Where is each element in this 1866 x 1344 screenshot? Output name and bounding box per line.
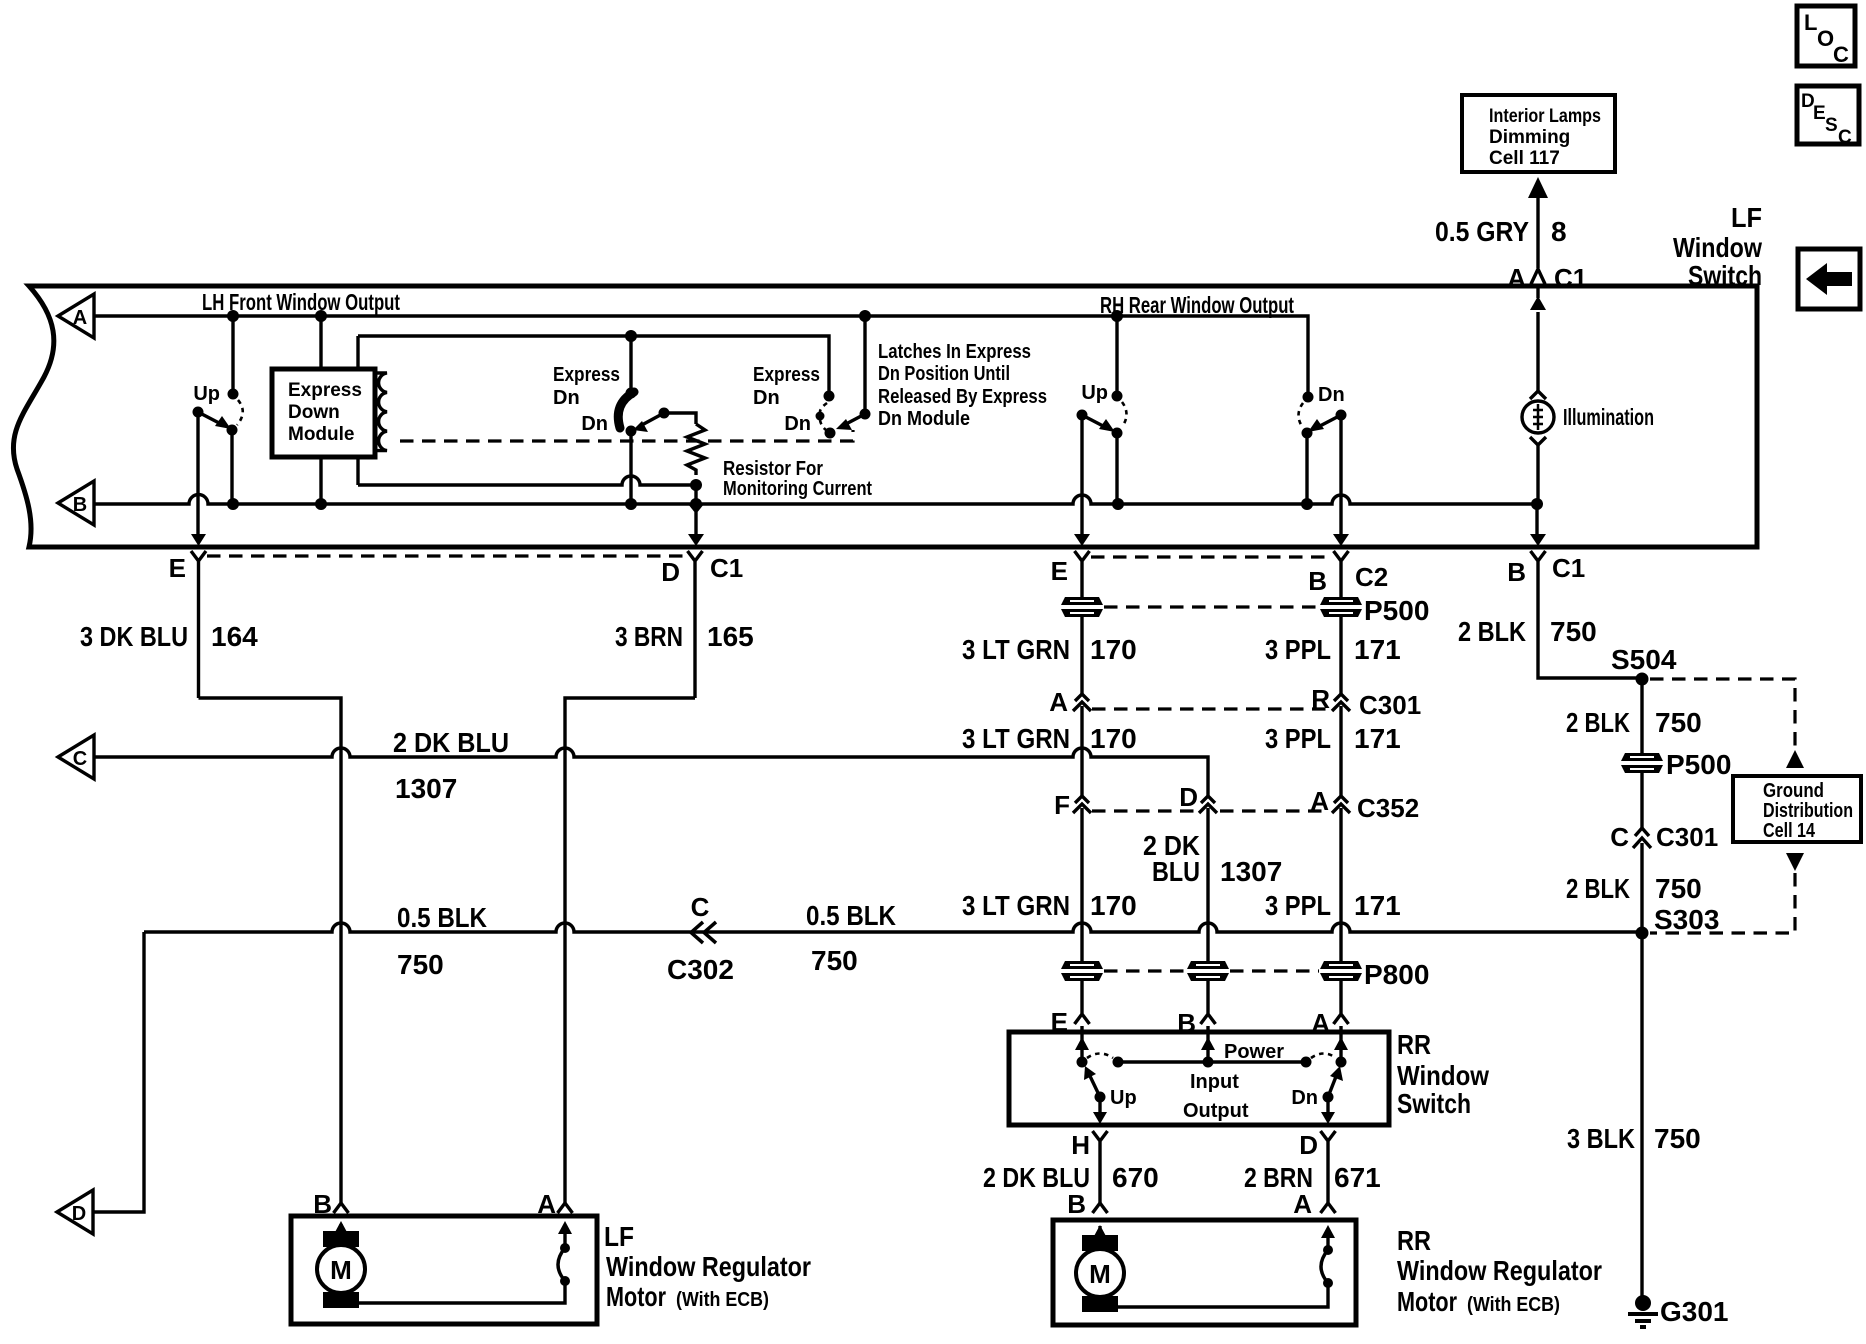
wire inner loop left bottom [356,457,359,485]
svg-text:1307: 1307 [395,773,457,804]
svg-text:Dn: Dn [581,413,608,435]
svg-text:3 PPL: 3 PPL [1265,723,1331,754]
LF motor ECB breaker [558,1221,572,1286]
pin D (RR switch) [1299,1130,1335,1203]
svg-text:E: E [1051,556,1068,586]
svg-text:Dn: Dn [553,387,580,409]
wire seg E column to P800 [1080,930,1083,961]
svg-text:C301: C301 [1656,822,1718,852]
svg-text:A: A [1507,263,1526,293]
svg-text:A: A [1293,1189,1312,1219]
svg-text:C: C [691,892,710,922]
svg-text:Distribution: Distribution [1763,800,1853,822]
RR switch power leg [1206,1032,1209,1062]
connector P800 (A line) [1320,961,1362,981]
connector C352 dashed [1092,809,1327,812]
svg-text:164: 164 [211,621,258,652]
wire inner loop left top [356,336,359,369]
wire 2 BLK 750 to P500 [1640,679,1643,753]
svg-text:D: D [72,1203,86,1225]
connector triangle A [58,294,94,338]
connector triangle C [58,735,94,779]
back-arrow box [1798,249,1860,309]
wire seg E column to C301 [1080,617,1083,694]
svg-text:Released By Express: Released By Express [878,386,1047,408]
svg-text:C1: C1 [1554,263,1587,293]
svg-text:C301: C301 [1359,690,1421,720]
svg-text:Module: Module [288,424,355,445]
svg-text:671: 671 [1334,1162,1381,1193]
pin A C352 [1310,786,1419,930]
svg-text:M: M [330,1255,352,1285]
svg-text:Illumination: Illumination [1563,404,1654,430]
RR window switch box U3 [1009,1032,1389,1125]
svg-text:C2: C2 [1355,562,1388,592]
svg-text:170: 170 [1090,723,1137,754]
wire inner loop bottom rail (hop over S2 pivot wire) [358,476,696,485]
svg-text:Window Regulator: Window Regulator [1397,1255,1602,1286]
wire 0.5 BLK 750 (horizontal with hops) [144,923,1642,932]
svg-text:Dn: Dn [753,387,780,409]
svg-text:D: D [1299,1130,1318,1160]
ground G301 [1628,1295,1729,1327]
svg-text:Input: Input [1190,1071,1239,1093]
dashed ground distribution link (S303 side) [1650,873,1795,933]
svg-text:750: 750 [1655,873,1702,904]
RR switch dn arm [1328,1074,1337,1097]
connector C1 dashed (left) [207,554,686,557]
svg-text:Switch: Switch [1397,1088,1471,1119]
node S504 [1636,673,1649,686]
svg-text:8: 8 [1551,216,1567,247]
svg-text:3 LT GRN: 3 LT GRN [962,723,1070,754]
RR switch dn output leg [1326,1097,1329,1119]
pin C C301 (ground run) [1610,822,1718,930]
svg-text:2 DK BLU: 2 DK BLU [393,727,509,758]
RR motor B entry arrow [1098,1226,1101,1235]
pin A (RR motor) [1293,1189,1335,1219]
svg-text:B: B [1308,566,1327,596]
RR switch up output leg [1098,1097,1101,1119]
wire RH up pivot to pin E C2 [1080,415,1083,535]
svg-text:170: 170 [1090,634,1137,665]
svg-text:A: A [1310,786,1329,816]
svg-text:B: B [73,494,87,516]
wire express module top [319,316,322,369]
pin F C352 [1054,790,1091,930]
svg-text:Interior Lamps: Interior Lamps [1489,106,1601,127]
dashed ground distribution link (S504 side) [1650,679,1795,748]
svg-text:Dn Module: Dn Module [878,408,970,430]
svg-text:3 BRN: 3 BRN [615,621,683,652]
wire illumination to wire B [1536,445,1539,504]
RR switch input rail [1118,1060,1306,1063]
svg-text:O: O [1817,26,1834,51]
svg-text:Resistor For: Resistor For [723,458,823,480]
pin B (RR motor) [1067,1189,1107,1219]
LF motor B entry arrow [339,1224,342,1231]
motor M1 symbol [317,1231,365,1308]
wire LH up pivot to pin E [196,412,199,535]
svg-text:165: 165 [707,621,754,652]
svg-text:Motor: Motor [606,1281,666,1312]
svg-text:2 BLK: 2 BLK [1566,873,1630,904]
svg-text:S504: S504 [1611,644,1677,675]
svg-text:171: 171 [1354,890,1401,921]
svg-text:Switch: Switch [1688,260,1762,291]
pin A C1 (top, LF switch) [1507,263,1587,293]
svg-text:750: 750 [1655,707,1702,738]
svg-text:Up: Up [1110,1087,1137,1109]
svg-text:0.5 GRY: 0.5 GRY [1435,216,1529,247]
LF Window Switch box U1 (torn left edge) [13,286,1757,547]
lamp DS1 illumination [1522,391,1654,445]
svg-text:C: C [1610,822,1629,852]
svg-text:A: A [73,307,87,329]
node wire A / express module [315,310,327,322]
wire LH up switch top [231,316,234,389]
svg-text:S: S [1825,115,1838,136]
svg-text:3 LT GRN: 3 LT GRN [962,634,1070,665]
connector triangle B [58,481,94,525]
svg-text:3 PPL: 3 PPL [1265,634,1331,665]
wire 165 run to LF motor A [565,698,695,1203]
svg-text:H: H [1071,1130,1090,1160]
wire B (output rail with hops) [94,495,1537,505]
P500 dashed link [1104,605,1318,608]
wire RH dn pivot to pin B C2 [1339,415,1342,535]
arrow out of ground cell [1786,853,1804,871]
wire 0.5 GRY 8 to dimming cell [1536,196,1539,268]
wire 164 run to LF motor B [199,698,342,1203]
wire illumination branch to pin B C1 [1535,504,1538,536]
svg-text:BLU: BLU [1152,856,1200,887]
svg-text:LF: LF [604,1221,634,1252]
switch S5 Dn (RH) [1299,384,1347,439]
svg-text:Dn: Dn [1291,1087,1318,1109]
svg-text:B: B [1067,1189,1086,1219]
DESC tab box [1797,86,1859,148]
pin B C1 (right) [1507,551,1642,678]
svg-text:0.5 BLK: 0.5 BLK [806,900,896,931]
connector P800 (E line) [1061,961,1103,981]
svg-text:750: 750 [1550,616,1597,647]
svg-text:3 DK BLU: 3 DK BLU [80,621,188,652]
pin E (RR switch) [1051,981,1090,1037]
node wire A / LH up switch [227,310,239,322]
svg-text:R: R [1311,684,1330,714]
svg-text:Monitoring Current: Monitoring Current [723,478,872,500]
wire 3 BLK 750 to ground [1640,933,1643,1300]
svg-text:P500: P500 [1364,595,1429,626]
pin D C1 [661,551,743,698]
svg-text:E: E [1813,103,1826,124]
pin R C301 [1311,684,1421,796]
svg-text:3 LT GRN: 3 LT GRN [962,890,1070,921]
svg-text:Dimming: Dimming [1489,127,1570,148]
svg-text:Ground: Ground [1763,780,1824,802]
svg-text:Motor: Motor [1397,1286,1457,1317]
svg-text:C: C [73,748,87,770]
svg-text:171: 171 [1354,723,1401,754]
pin B (LF motor) [313,1189,348,1219]
wire LH up lower contact to wire B [230,430,233,504]
svg-text:3 PPL: 3 PPL [1265,890,1331,921]
svg-text:171: 171 [1354,634,1401,665]
svg-text:750: 750 [1654,1123,1701,1154]
svg-text:RR: RR [1397,1225,1431,1256]
RR motor bottom wire [1100,1283,1328,1307]
express module coil (right edge) [376,373,387,451]
svg-text:2 BLK: 2 BLK [1458,616,1526,647]
svg-text:0.5 BLK: 0.5 BLK [397,902,487,933]
connector C302 marker [667,892,734,985]
svg-text:C: C [1838,127,1852,148]
RR switch A leg [1339,1032,1342,1061]
wire A (LH front window output rail) [94,316,1308,392]
wire seg B column to C301 [1339,617,1342,694]
svg-text:S303: S303 [1654,904,1719,935]
svg-text:P500: P500 [1666,749,1731,780]
switch S1 Up (LH) [193,383,243,436]
wire illumination top to pin A C1 [1536,312,1539,391]
svg-text:D: D [1179,782,1198,812]
pin A (LF motor) [537,1189,572,1219]
svg-text:Window Regulator: Window Regulator [606,1251,811,1282]
svg-text:Window: Window [1673,232,1762,263]
connector C2 dashed [1091,555,1330,558]
svg-text:Up: Up [1081,382,1108,404]
svg-text:Dn: Dn [784,413,811,435]
RR switch dn contact arc [1311,1054,1336,1059]
pin B C2 [1308,551,1388,598]
resistor R1 (current monitoring) [687,424,705,475]
wire inner loop top rail [358,336,829,391]
svg-text:170: 170 [1090,890,1137,921]
switch S3 latch contact (express dn 2) [753,364,871,439]
svg-text:RR: RR [1397,1029,1431,1060]
connector P800 (D line) [1187,961,1229,981]
ground distribution cell 14 box [1733,776,1861,842]
wire RH dn lower contact to wire B [1305,433,1308,504]
switch S2 Express Dn (latching) [553,336,670,437]
svg-text:L: L [1804,10,1817,35]
svg-text:Dn: Dn [1318,384,1345,406]
RR switch up contact arc [1087,1054,1113,1059]
svg-text:Dn Position Until: Dn Position Until [878,363,1010,385]
motor M2 symbol [1076,1235,1124,1312]
node wire A / RH up switch [1111,310,1123,322]
dashed module control line [400,430,853,441]
pin D C352 [1179,782,1217,961]
arrow into ground cell [1786,750,1804,768]
connector triangle D [57,1190,93,1234]
svg-text:G301: G301 [1660,1296,1729,1327]
RR motor ECB breaker [1321,1225,1335,1288]
svg-text:1307: 1307 [1220,856,1282,887]
svg-text:Cell 117: Cell 117 [1489,148,1560,169]
svg-text:D: D [661,557,680,587]
svg-text:C1: C1 [1552,553,1585,583]
pin A (RR switch) [1311,981,1348,1038]
svg-text:Cell 14: Cell 14 [1763,820,1816,842]
connector C301 dashed [1092,707,1327,710]
P800 dashed links [1104,969,1319,972]
wire S2 pivot to wire B [629,431,632,504]
svg-text:C1: C1 [710,553,743,583]
node resistor / loop bottom [690,479,702,491]
node wire A / latch arm [859,310,871,322]
svg-text:(With ECB): (With ECB) [676,1289,769,1311]
interior lamps dimming cell 117 box [1462,95,1615,172]
wire seg B column to P800 [1339,930,1342,961]
svg-text:M: M [1089,1259,1111,1289]
LF window regulator motor box M1 [291,1216,597,1324]
svg-text:670: 670 [1112,1162,1159,1193]
LF motor bottom wire [341,1281,565,1303]
pin E C2 [1051,551,1090,598]
wire D triangle riser [93,932,144,1212]
svg-text:Express: Express [288,380,362,401]
wire resistor to wire B [694,485,697,504]
pin H (RR switch) [1071,1130,1107,1203]
switch S4 Up (RH) [1077,382,1127,439]
wire P500 to C301 [1640,773,1643,828]
svg-text:2 BLK: 2 BLK [1566,707,1630,738]
svg-text:Power: Power [1224,1041,1284,1063]
LOC tab box [1797,6,1855,67]
svg-text:Latches In Express: Latches In Express [878,341,1031,363]
wire resistor branch to pin D [694,512,697,536]
svg-text:Output: Output [1183,1100,1249,1122]
svg-text:Window: Window [1397,1060,1489,1091]
node S303 [1636,927,1649,940]
svg-text:Down: Down [288,402,340,423]
svg-text:P800: P800 [1364,959,1429,990]
connector P500 (E line) [1061,597,1103,617]
svg-text:RH Rear Window Output: RH Rear Window Output [1100,292,1294,318]
svg-text:LF: LF [1731,202,1762,233]
svg-text:B: B [1507,557,1526,587]
wire S2 arm to resistor [664,413,696,424]
svg-text:(With ECB): (With ECB) [1467,1294,1560,1316]
svg-text:Express: Express [553,364,620,386]
svg-text:750: 750 [397,949,444,980]
wire latch arm to wire A [863,316,866,414]
svg-text:A: A [1049,687,1068,717]
svg-text:F: F [1054,790,1070,820]
RR window regulator motor box M2 [1053,1220,1356,1325]
connector P500 (B line) [1320,597,1362,617]
svg-text:Up: Up [193,383,220,405]
svg-text:C: C [1833,42,1849,67]
wire RH up lower contact to wire B [1115,433,1118,504]
svg-text:C302: C302 [667,954,734,985]
pin B (RR switch) [1177,981,1215,1038]
wire 2 DK BLU 1307 (horizontal with hops) [94,748,1208,796]
wire RH up switch top [1115,316,1118,391]
connector P500 (ground run) [1621,753,1663,773]
pin A C301 [1049,687,1091,796]
svg-text:C352: C352 [1357,793,1419,823]
wire express module bottom to wire B [319,457,322,504]
pin E C1 [169,551,206,698]
svg-text:E: E [169,553,186,583]
svg-text:Express: Express [753,364,820,386]
RR switch up arm [1089,1074,1100,1097]
RR switch E leg [1080,1032,1083,1061]
svg-text:3 BLK: 3 BLK [1567,1123,1635,1154]
express down module U2 [272,369,375,457]
svg-text:750: 750 [811,945,858,976]
